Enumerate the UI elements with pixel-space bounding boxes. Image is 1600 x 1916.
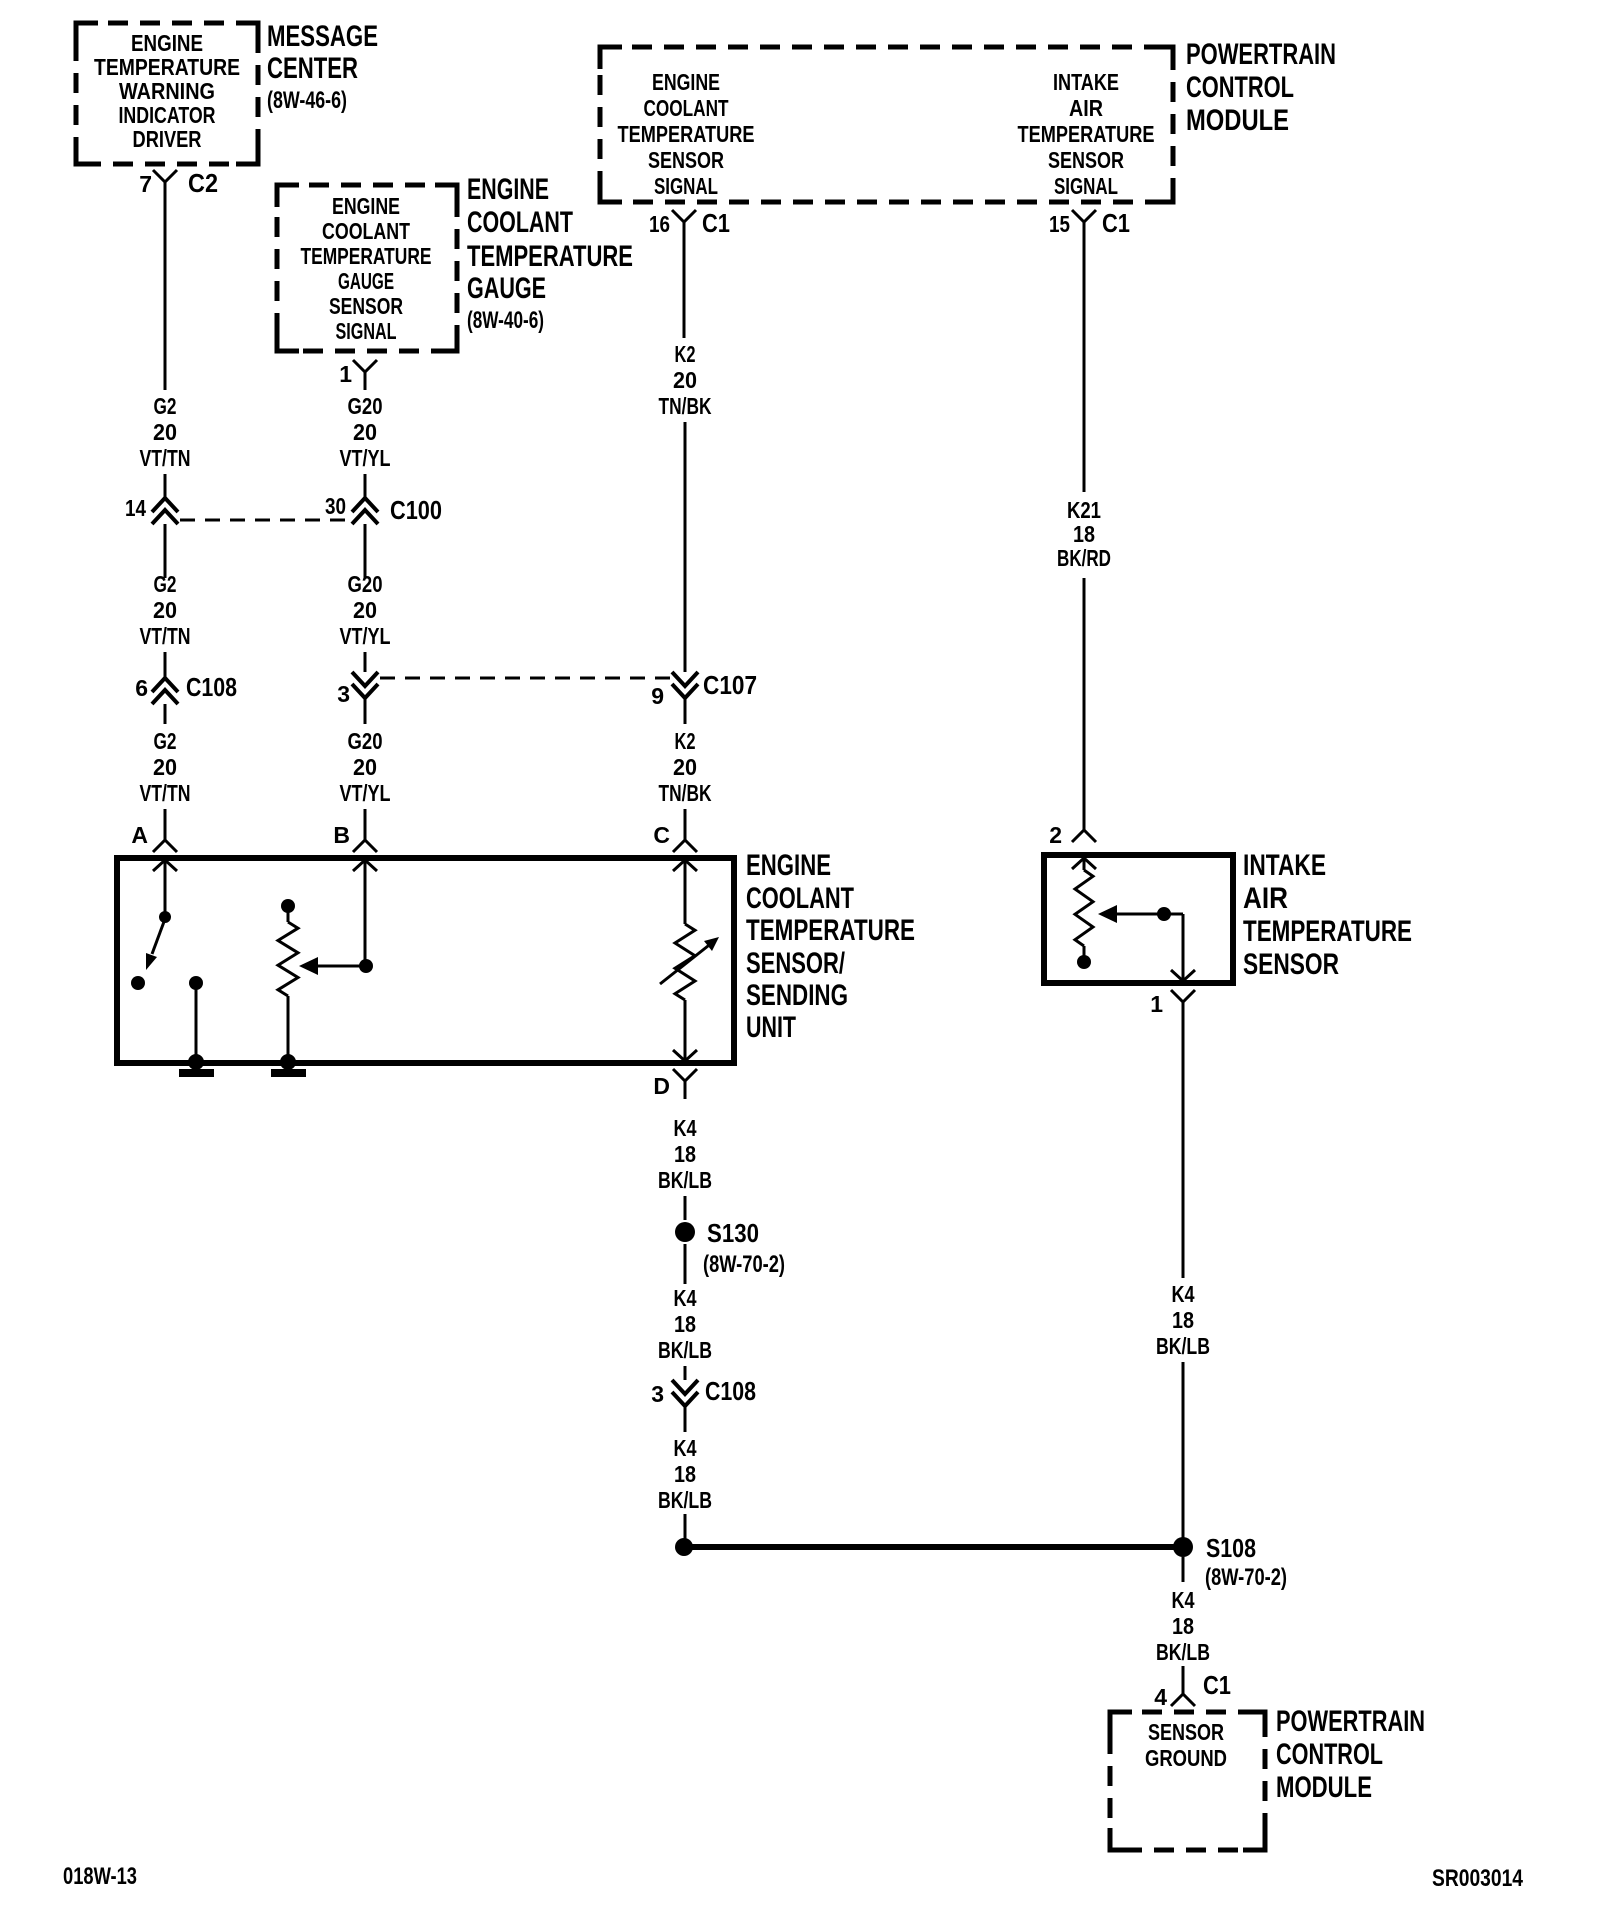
svg-text:COOLANT: COOLANT [746, 882, 854, 915]
component box: intake air temperature sensor [1044, 855, 1233, 983]
pin 2 box entry [1072, 858, 1096, 869]
svg-text:1: 1 [1150, 991, 1163, 1017]
wire inside IAT from pin 2 [1083, 858, 1086, 870]
svg-text:6: 6 [135, 675, 148, 701]
svg-text:18: 18 [1172, 1307, 1194, 1333]
wire G20 below C100 [364, 524, 367, 578]
svg-text:30: 30 [325, 493, 346, 519]
svg-text:SIGNAL: SIGNAL [1054, 173, 1118, 199]
svg-text:S108: S108 [1206, 1533, 1256, 1563]
connector pin 1 of gauge signal [353, 360, 377, 390]
svg-text:A: A [131, 822, 148, 848]
svg-text:GROUND: GROUND [1145, 1745, 1227, 1771]
svg-text:COOLANT: COOLANT [644, 95, 729, 121]
svg-text:20: 20 [353, 754, 377, 780]
potentiometer bottom lead [287, 996, 290, 1060]
wire from switch contact to ground [195, 989, 198, 1060]
svg-text:20: 20 [153, 419, 177, 445]
connector C100 pin 14 [152, 498, 178, 524]
svg-text:K4: K4 [674, 1285, 697, 1311]
svg-text:20: 20 [353, 419, 377, 445]
connector C100 pin 30 [352, 498, 378, 524]
wire K2 below C107 [684, 698, 687, 724]
svg-text:K21: K21 [1067, 497, 1101, 523]
wire K4 down to junction [684, 1514, 687, 1540]
svg-text:CONTROL: CONTROL [1186, 71, 1294, 104]
svg-text:S130: S130 [707, 1218, 759, 1248]
switch blade [152, 919, 165, 954]
connector C108 pin 6 [152, 678, 178, 704]
IAT resistor bottom contact dot [1077, 955, 1091, 969]
pin A connector [153, 822, 177, 852]
wiper junction dot [359, 959, 373, 973]
svg-text:C1: C1 [702, 208, 730, 238]
svg-text:BK/LB: BK/LB [658, 1487, 712, 1513]
svg-text:VT/TN: VT/TN [140, 780, 191, 806]
wire G2 below C108 [164, 704, 167, 724]
dashed connector link C107 [380, 677, 670, 680]
svg-text:SENSOR: SENSOR [1048, 147, 1124, 173]
svg-text:ENGINE: ENGINE [131, 30, 203, 56]
svg-text:MODULE: MODULE [1186, 104, 1289, 137]
svg-text:SENSOR: SENSOR [1243, 948, 1339, 981]
svg-text:GAUGE: GAUGE [467, 272, 546, 305]
wire inside ECTS from pin C [684, 860, 687, 924]
svg-text:WARNING: WARNING [119, 78, 215, 104]
wire inside ECTS from pin B [364, 860, 367, 960]
ground (potentiometer) [271, 1054, 306, 1077]
svg-text:ENGINE: ENGINE [652, 69, 720, 95]
svg-text:AIR: AIR [1243, 882, 1288, 915]
IAT wiper arrowhead [1098, 905, 1117, 923]
wire K4 from IAT pin 1 [1182, 1019, 1185, 1278]
svg-text:18: 18 [674, 1141, 696, 1167]
wire K2 from pin 16 [683, 240, 686, 338]
wire G2 above C108 [164, 652, 167, 678]
svg-text:B: B [333, 822, 350, 848]
wire K21 down to IAT sensor [1083, 578, 1086, 814]
IAT thermistor element [1075, 870, 1093, 946]
svg-text:TEMPERATURE: TEMPERATURE [94, 54, 240, 80]
potentiometer top contact dot [281, 899, 295, 913]
svg-text:C1: C1 [1203, 1670, 1231, 1700]
pin 2 connector [1072, 812, 1096, 842]
module box: engine coolant temperature gauge sensor signal [277, 185, 457, 351]
svg-text:BK/LB: BK/LB [658, 1337, 712, 1363]
pin D connector [673, 1069, 697, 1099]
connector C108 pin 3 (lower) [672, 1380, 698, 1406]
svg-text:9: 9 [651, 683, 664, 709]
svg-text:16: 16 [649, 211, 670, 237]
connector C1 pin 16 [672, 210, 696, 240]
svg-text:018W-13: 018W-13 [63, 1863, 137, 1890]
svg-text:20: 20 [673, 754, 697, 780]
svg-text:AIR: AIR [1069, 95, 1103, 121]
wire K4 above C108 pin 3 [684, 1366, 687, 1380]
svg-text:VT/YL: VT/YL [340, 445, 391, 471]
module box: powertrain control module (top) [600, 47, 1173, 202]
wire from resistor to pin D [684, 1000, 687, 1060]
pin B connector [353, 822, 377, 852]
svg-text:POWERTRAIN: POWERTRAIN [1276, 1705, 1425, 1738]
IAT wiper junction dot [1157, 907, 1171, 921]
wire G2 segment above C100 [164, 474, 167, 498]
wire G20 above pin 3 [364, 652, 367, 672]
connector C107 pin 3 [352, 672, 378, 698]
connector C1 pin 4 [1171, 1676, 1195, 1706]
pin C stem [684, 809, 687, 828]
svg-text:(8W-70-2): (8W-70-2) [703, 1251, 785, 1278]
pin 1 box exit [1171, 970, 1195, 981]
svg-text:MESSAGE: MESSAGE [267, 20, 378, 53]
svg-text:K4: K4 [674, 1435, 697, 1461]
svg-text:VT/YL: VT/YL [340, 780, 391, 806]
pin C box entry [673, 860, 697, 871]
svg-text:20: 20 [153, 754, 177, 780]
wiper arm [316, 965, 366, 968]
svg-text:BK/RD: BK/RD [1057, 545, 1111, 571]
potentiometer resistor element [278, 922, 298, 996]
variable resistor arrow [660, 937, 719, 984]
svg-text:C: C [653, 822, 670, 848]
splice S130 [675, 1222, 695, 1242]
svg-text:INDICATOR: INDICATOR [119, 102, 216, 128]
svg-text:(8W-46-6): (8W-46-6) [267, 87, 347, 114]
connector C1 pin 15 [1072, 210, 1096, 240]
svg-text:K2: K2 [675, 728, 696, 754]
junction dot at S108 link [675, 1538, 693, 1556]
dashed connector link C100 [180, 519, 352, 522]
svg-text:BK/LB: BK/LB [658, 1167, 712, 1193]
svg-text:18: 18 [674, 1311, 696, 1337]
svg-text:18: 18 [674, 1461, 696, 1487]
svg-text:GAUGE: GAUGE [338, 268, 394, 294]
svg-text:TEMPERATURE: TEMPERATURE [301, 243, 432, 269]
svg-text:ENGINE: ENGINE [332, 193, 400, 219]
svg-text:BK/LB: BK/LB [1156, 1639, 1210, 1665]
svg-text:2: 2 [1049, 822, 1062, 848]
svg-text:ENGINE: ENGINE [467, 173, 549, 206]
svg-text:K4: K4 [674, 1115, 697, 1141]
pin A box entry [153, 860, 177, 871]
svg-text:INTAKE: INTAKE [1243, 849, 1326, 882]
IAT resistor bottom lead [1083, 946, 1086, 956]
wire G20 segment above C100 [364, 474, 367, 498]
svg-text:C108: C108 [705, 1376, 756, 1406]
svg-text:15: 15 [1049, 211, 1070, 237]
svg-text:BK/LB: BK/LB [1156, 1333, 1210, 1359]
svg-text:C100: C100 [390, 495, 442, 525]
module box: engine temperature warning indicator driver (message center) [76, 23, 258, 164]
wire K21 from pin 15 [1083, 240, 1086, 492]
svg-text:SENSOR/: SENSOR/ [746, 947, 845, 980]
svg-text:18: 18 [1172, 1613, 1194, 1639]
svg-text:SIGNAL: SIGNAL [336, 318, 397, 344]
svg-text:20: 20 [673, 367, 697, 393]
connector C107 pin 9 [672, 672, 698, 698]
svg-text:1: 1 [339, 361, 352, 387]
svg-text:TEMPERATURE: TEMPERATURE [618, 121, 755, 147]
svg-text:SENSOR: SENSOR [648, 147, 724, 173]
pin C connector [673, 822, 697, 852]
wire inside IAT down to pin 1 [1182, 914, 1185, 979]
svg-text:D: D [653, 1073, 670, 1099]
wire K4 down to S108 [1182, 1362, 1185, 1538]
svg-text:C1: C1 [1102, 208, 1130, 238]
svg-text:G2: G2 [154, 571, 177, 597]
wire G2 segment from C2 [164, 200, 167, 390]
potentiometer top lead [287, 912, 290, 922]
svg-text:4: 4 [1154, 1684, 1167, 1710]
svg-text:3: 3 [651, 1381, 664, 1407]
svg-text:CENTER: CENTER [267, 52, 358, 85]
svg-text:(8W-40-6): (8W-40-6) [467, 307, 544, 334]
component box: engine coolant temperature sensor/sending unit [117, 858, 734, 1063]
svg-text:(8W-70-2): (8W-70-2) [1205, 1564, 1287, 1591]
svg-text:VT/YL: VT/YL [340, 623, 391, 649]
svg-text:VT/TN: VT/TN [140, 445, 191, 471]
svg-text:ENGINE: ENGINE [746, 849, 831, 882]
svg-text:MODULE: MODULE [1276, 1771, 1372, 1804]
svg-text:G2: G2 [154, 393, 177, 419]
svg-text:G20: G20 [348, 393, 383, 419]
splice S108 [1173, 1537, 1193, 1557]
wire G2 below C100 [164, 524, 167, 578]
variable resistor element (ECT sensor) [675, 924, 695, 1000]
pin B stem [364, 809, 367, 828]
svg-text:K2: K2 [675, 341, 696, 367]
svg-text:TEMPERATURE: TEMPERATURE [467, 240, 633, 273]
switch contact dot [131, 976, 145, 990]
svg-text:VT/TN: VT/TN [140, 623, 191, 649]
svg-text:UNIT: UNIT [746, 1011, 796, 1044]
wire inside ECTS from pin A [164, 860, 167, 912]
svg-text:TN/BK: TN/BK [659, 780, 712, 806]
wire K4 below S108 [1182, 1557, 1185, 1582]
switch pivot contact [159, 911, 171, 923]
svg-text:C108: C108 [186, 672, 237, 702]
svg-text:SENSOR: SENSOR [329, 293, 403, 319]
svg-text:SIGNAL: SIGNAL [654, 173, 718, 199]
svg-text:POWERTRAIN: POWERTRAIN [1186, 38, 1336, 71]
svg-text:SENSOR: SENSOR [1148, 1719, 1224, 1745]
svg-text:C2: C2 [188, 168, 218, 198]
ground (switch) [179, 1054, 214, 1077]
module box: powertrain control module (bottom, sensor ground) [1110, 1712, 1265, 1850]
svg-text:G20: G20 [348, 728, 383, 754]
svg-text:G2: G2 [154, 728, 177, 754]
svg-text:K4: K4 [1172, 1281, 1195, 1307]
svg-text:SR003014: SR003014 [1432, 1865, 1524, 1892]
wire K4 to C1 pin 4 [1182, 1666, 1185, 1694]
switch output contact dot [189, 976, 203, 990]
svg-text:TEMPERATURE: TEMPERATURE [746, 914, 915, 947]
svg-text:COOLANT: COOLANT [467, 206, 573, 239]
svg-text:14: 14 [125, 495, 146, 521]
svg-text:TEMPERATURE: TEMPERATURE [1243, 915, 1412, 948]
pin A stem [164, 809, 167, 828]
svg-text:CONTROL: CONTROL [1276, 1738, 1383, 1771]
wire K2 down to C107 [684, 422, 687, 672]
svg-text:7: 7 [139, 171, 152, 197]
svg-text:3: 3 [337, 681, 350, 707]
svg-text:K4: K4 [1172, 1587, 1195, 1613]
IAT wiper arm [1114, 913, 1183, 916]
wire link to S108 [684, 1544, 1183, 1550]
svg-text:G20: G20 [348, 571, 383, 597]
svg-text:TN/BK: TN/BK [659, 393, 712, 419]
switch blade arrowhead [146, 953, 157, 970]
svg-text:SENDING: SENDING [746, 979, 848, 1012]
svg-text:DRIVER: DRIVER [133, 126, 202, 152]
wire K4 below C108 [684, 1406, 687, 1432]
wire K4 below S130 [684, 1244, 687, 1284]
svg-text:20: 20 [153, 597, 177, 623]
svg-text:20: 20 [353, 597, 377, 623]
connector C2 pin 7 [153, 170, 177, 200]
wire K4 above S130 [684, 1196, 687, 1220]
svg-text:18: 18 [1073, 521, 1095, 547]
pin D box exit [673, 1050, 697, 1061]
pin B box entry [353, 860, 377, 871]
svg-text:C107: C107 [703, 670, 757, 700]
wire G20 below pin 3 [364, 698, 367, 724]
svg-text:INTAKE: INTAKE [1053, 69, 1119, 95]
svg-text:COOLANT: COOLANT [322, 218, 410, 244]
wiper arrowhead [299, 957, 318, 975]
svg-text:TEMPERATURE: TEMPERATURE [1018, 121, 1155, 147]
pin 1 connector [1171, 990, 1195, 1020]
